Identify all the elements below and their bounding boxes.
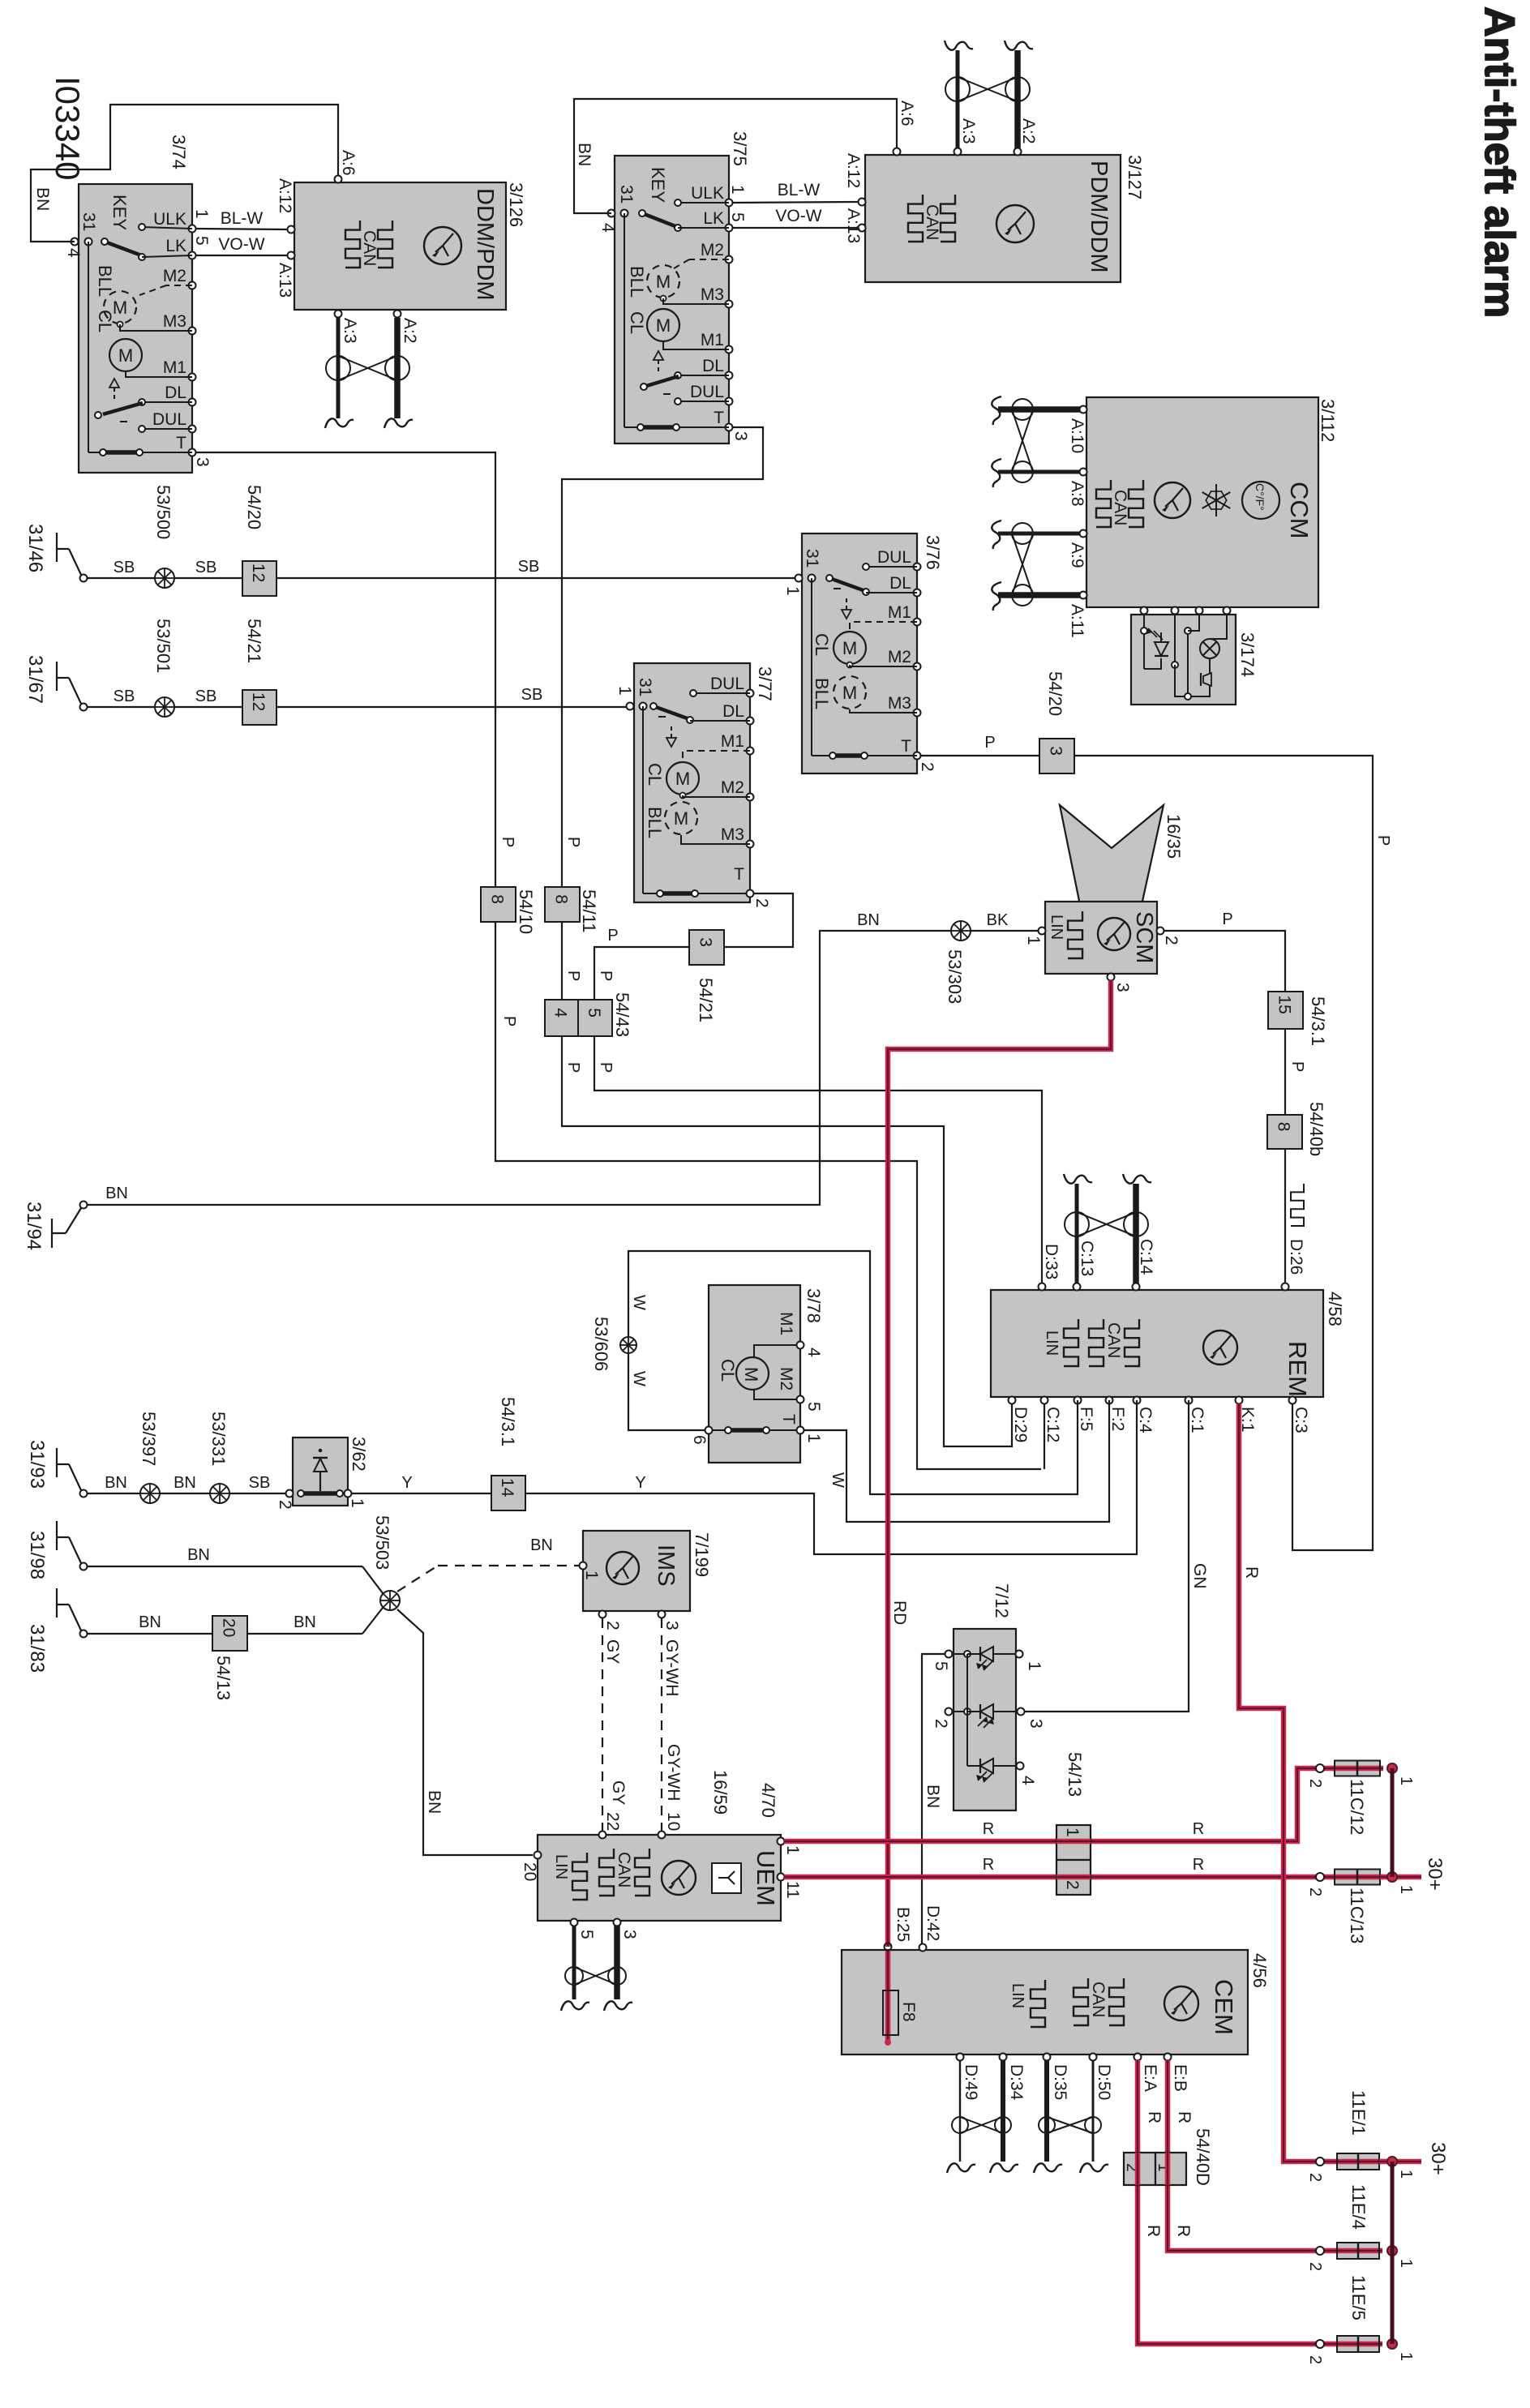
splice 53/501 [153,619,174,717]
title Anti-theft alarm [1476,6,1523,318]
diagram id I03340 [49,76,87,180]
svg-text:CAN: CAN [360,230,379,266]
svg-text:SB: SB [521,686,543,704]
svg-text:P: P [1222,910,1232,928]
alarm status unit 3/174 [1131,607,1258,705]
svg-text:R: R [1145,2111,1164,2123]
svg-text:M: M [656,272,671,292]
svg-text:2: 2 [276,1500,294,1510]
svg-text:BN: BN [105,1185,128,1202]
svg-text:SB: SB [518,558,540,576]
svg-text:R: R [1144,2225,1163,2237]
svg-text:A:12: A:12 [276,178,294,213]
svg-text:4: 4 [598,223,617,233]
fuse 11C/13 with 30+ feed [1306,1857,1446,1943]
svg-text:F:2: F:2 [1108,1407,1127,1431]
svg-text:W: W [829,1472,846,1488]
svg-text:1: 1 [1397,1885,1415,1894]
svg-text:DUL: DUL [152,410,186,429]
svg-text:M2: M2 [888,648,911,666]
immobilizer module IMS 7/199 [580,1531,713,1618]
svg-text:22: 22 [603,1812,622,1831]
svg-text:7/12: 7/12 [992,1583,1012,1618]
svg-text:P: P [597,970,615,981]
wire BN dashed 53/503 to IMS pin 1 [397,1536,580,1592]
svg-text:M: M [842,683,857,703]
svg-text:53/503: 53/503 [372,1515,392,1570]
svg-text:31/67: 31/67 [24,655,46,704]
svg-text:15: 15 [1275,995,1294,1013]
svg-text:30+: 30+ [1427,2142,1449,2175]
wire RD red SCM pin 3 to CEM B:25 [888,980,1111,1947]
connector 54/20 pin 12 [242,485,276,596]
svg-text:3: 3 [1026,1719,1045,1729]
wire BN 53/503 to UEM pin 20 [397,1609,533,1855]
svg-text:1: 1 [1063,1827,1082,1837]
svg-text:3: 3 [662,1621,681,1630]
svg-text:C:3: C:3 [1292,1407,1310,1433]
wire BN 31/98 to 53/503 [88,1546,383,1593]
svg-text:54/40b: 54/40b [1306,1102,1326,1156]
svg-text:D:50: D:50 [1095,2064,1113,2100]
svg-text:C:4: C:4 [1136,1407,1155,1433]
svg-text:DL: DL [702,357,724,375]
svg-text:10: 10 [664,1812,683,1831]
svg-text:A:3: A:3 [959,118,978,144]
svg-text:2: 2 [1306,2355,1324,2364]
svg-text:53/501: 53/501 [153,619,174,673]
fuse 11E/1 with 30+ feed [1306,2090,1449,2182]
wire P SCM pin 2 to REM D:26 via 54/3.1 pin 15 and 54/40b pin 8 [1164,910,1306,1287]
svg-text:BN: BN [139,1613,161,1631]
svg-text:M2: M2 [777,1367,795,1390]
svg-text:31/83: 31/83 [26,1624,48,1673]
wire VO-W 3/75 LK to A:13 [732,207,859,228]
svg-text:2: 2 [1162,936,1181,945]
svg-text:A:12: A:12 [844,153,863,188]
trunk lock unit 3/78 [690,1285,824,1463]
svg-text:D:26: D:26 [1287,1239,1305,1275]
svg-text:16/35: 16/35 [1164,814,1184,859]
svg-text:M1: M1 [721,732,744,751]
svg-text:54/40D: 54/40D [1193,2128,1213,2186]
wire BL-W 3/75 ULK to A:12 [732,181,859,203]
svg-text:M1: M1 [163,358,186,377]
svg-text:1: 1 [348,1498,366,1508]
wire SB 54/21 to 3/77 pin 1 [276,686,627,707]
svg-text:Y: Y [401,1474,412,1492]
svg-text:3/174: 3/174 [1237,632,1258,677]
svg-text:1: 1 [1397,2352,1415,2361]
svg-text:BK: BK [987,911,1009,929]
lock module 3/77 [615,663,775,908]
svg-text:T: T [779,1414,798,1425]
wire SB 54/20 to 3/76 pin 1 [276,558,795,578]
svg-text:R: R [1193,1856,1204,1874]
svg-text:2: 2 [932,1719,950,1729]
svg-text:53/303: 53/303 [945,949,965,1004]
svg-text:W: W [630,1295,648,1310]
svg-text:R: R [1242,1566,1261,1579]
svg-text:IMS: IMS [653,1545,679,1587]
svg-text:2: 2 [1306,1779,1324,1788]
svg-text:4: 4 [804,1348,823,1357]
wire SB 53/331 to 3/62 [229,1474,289,1493]
svg-text:ULK: ULK [691,184,724,203]
ground 31/93 [26,1440,88,1498]
svg-text:CAN: CAN [923,204,941,240]
svg-text:M3: M3 [163,312,186,331]
svg-text:W: W [630,1371,648,1386]
svg-text:CL: CL [627,311,647,334]
svg-text:LIN: LIN [1009,1983,1026,2008]
ground 31/83 [26,1588,88,1673]
ground 31/67 [24,655,88,711]
svg-text:P: P [597,1062,615,1073]
CAN twisted pair at PDM/DDM A:3 A:2 [945,41,1038,148]
svg-text:BLL: BLL [95,265,115,297]
wire SB 53/500 to 54/20 [174,559,242,578]
svg-text:DL: DL [722,702,744,721]
svg-text:3/112: 3/112 [1318,399,1338,442]
svg-text:54/20: 54/20 [244,485,264,529]
svg-text:M1: M1 [888,603,911,622]
svg-text:3: 3 [193,457,212,467]
wire BN 31/93 to 53/397 [88,1474,140,1493]
wire BN 3/75 to PDM/DDM A:6 [574,99,897,213]
wire R red CEM E:B to fuse 11E/4 via 54/40D pin 1 [1168,2060,1334,2251]
busbar 11C/12 to 11C/13 [1391,1768,1395,1877]
svg-text:GY-WH: GY-WH [662,1639,681,1696]
svg-text:M: M [674,808,688,829]
svg-text:2: 2 [1306,1887,1324,1896]
svg-text:M2: M2 [163,267,186,285]
CAN twisted pairs at CEM D:49 D:34 D:35 D:50 [947,2060,1108,2173]
svg-text:Y: Y [635,1474,645,1492]
svg-text:BN: BN [33,187,52,211]
ground 31/98 [26,1521,88,1579]
svg-text:5: 5 [728,212,747,222]
svg-text:SB: SB [249,1474,271,1492]
svg-text:R: R [1174,2225,1193,2237]
svg-text:KEY: KEY [648,167,668,203]
svg-text:16/59: 16/59 [710,1770,731,1815]
svg-text:P: P [499,837,516,847]
svg-text:BL-W: BL-W [778,181,821,199]
wire R red CEM E:A to fuse 11E/5 via 54/40D pin 2 [1138,2060,1334,2344]
svg-text:11E/1: 11E/1 [1348,2090,1369,2136]
door lock module 3/75 [598,131,750,443]
svg-text:11: 11 [783,1881,802,1899]
svg-text:3/78: 3/78 [804,1288,824,1323]
svg-text:BN: BN [575,143,594,166]
svg-text:CEM: CEM [1210,1979,1238,2035]
connector 54/43 pins 4 and 5 [545,992,632,1037]
lock module 3/76 [783,533,943,773]
svg-text:F8: F8 [899,2002,918,2022]
svg-text:54/3.1: 54/3.1 [498,1397,518,1446]
svg-text:5: 5 [577,1930,596,1939]
svg-text:A:9: A:9 [1068,542,1086,568]
svg-text:BN: BN [105,1474,127,1492]
svg-text:GY-WH: GY-WH [664,1744,683,1801]
svg-text:2: 2 [603,1621,622,1630]
svg-text:A:3: A:3 [341,318,359,344]
svg-text:P: P [1374,835,1392,846]
svg-text:31: 31 [803,549,821,568]
svg-text:31/94: 31/94 [23,1202,45,1250]
svg-text:LIN: LIN [1048,915,1065,940]
svg-text:A:10: A:10 [1068,418,1086,453]
svg-text:A:8: A:8 [1068,481,1086,507]
CAN twisted pair at DDM/PDM A:3 A:2 [325,318,419,428]
diode 3/62 [276,1437,369,1510]
svg-text:E:A: E:A [1141,2064,1159,2092]
wire VO-W 3/74 LK to A:13 [195,235,288,255]
svg-text:B:25: B:25 [894,1907,912,1942]
svg-text:P: P [564,970,582,981]
svg-text:2: 2 [752,898,771,908]
svg-text:D:42: D:42 [924,1905,942,1941]
splice 53/503 [372,1515,400,1610]
fuse 11C/12 [1306,1761,1415,1836]
svg-text:3/62: 3/62 [349,1437,369,1472]
svg-text:31: 31 [617,185,636,204]
red feed through CEM fuse F8 [883,1943,898,2046]
wire BN 7/12 pin 5 to CEM D:42 [922,1654,945,1944]
svg-text:CL: CL [812,633,832,656]
svg-text:BN: BN [174,1474,196,1492]
svg-text:6: 6 [690,1435,709,1445]
svg-text:D:49: D:49 [962,2064,980,2100]
svg-text:1: 1 [783,586,802,596]
svg-text:3: 3 [620,1930,639,1939]
svg-text:LIN: LIN [1043,1330,1061,1356]
svg-text:T: T [734,865,744,884]
svg-text:4/58: 4/58 [1325,1292,1345,1326]
svg-text:54/10: 54/10 [516,889,536,934]
svg-text:12: 12 [249,563,268,582]
svg-text:54/20: 54/20 [1045,671,1065,716]
svg-text:C°/F°: C°/F° [1254,483,1266,511]
wire BN 31/83 to 53/503 via 54/13 pin 20 [88,1608,383,1634]
connector 54/13 pin 20 [212,1616,247,1700]
svg-text:4: 4 [1018,1776,1037,1785]
fuse 11E/5 [1306,2275,1415,2364]
svg-text:2: 2 [918,762,936,772]
svg-text:2: 2 [1306,2173,1324,2182]
svg-text:BN: BN [425,1790,444,1814]
alarm indicator LEDs 7/12 [932,1583,1045,1810]
upper electronic module UEM 4/70 [521,1770,802,1939]
svg-text:SB: SB [195,688,217,705]
svg-text:CAN: CAN [615,1852,633,1887]
svg-text:2: 2 [1306,2262,1324,2271]
svg-text:1: 1 [582,1570,601,1580]
svg-text:RD: RD [890,1600,909,1625]
svg-text:14: 14 [498,1478,516,1498]
splice 53/303 [945,921,971,1004]
svg-text:53/331: 53/331 [208,1412,229,1466]
svg-text:1: 1 [804,1433,823,1443]
svg-text:53/606: 53/606 [591,1317,611,1371]
svg-text:3: 3 [1047,746,1065,756]
svg-text:54/3.1: 54/3.1 [1308,996,1328,1046]
svg-text:1: 1 [1025,1661,1044,1671]
wire SB from 31/46 [88,559,155,578]
svg-text:C:12: C:12 [1044,1407,1062,1442]
svg-text:M3: M3 [701,285,724,304]
svg-text:54/13: 54/13 [1065,1752,1085,1797]
svg-text:A:6: A:6 [339,150,358,176]
svg-text:4/70: 4/70 [758,1783,778,1818]
svg-text:D:34: D:34 [1007,2064,1026,2101]
svg-text:SB: SB [114,559,135,576]
rear electronic module REM 4/58 [991,1239,1345,1442]
svg-text:M: M [842,638,857,658]
svg-text:CCM: CCM [1285,482,1314,539]
svg-text:GY: GY [609,1780,628,1805]
connector 54/13 pins 1 and 2 [1056,1752,1091,1895]
wire P 3/74 T to REM C:12 via 54/10 [195,452,1044,1469]
connector 54/21 pin 12 [242,619,276,725]
fuse 11E/4 [1306,2184,1415,2271]
wire GN REM C:1 to 7/12 pin 3 [1024,1400,1209,1712]
svg-text:CL: CL [645,763,665,786]
svg-text:54/21: 54/21 [696,978,716,1022]
svg-text:3/76: 3/76 [923,535,943,570]
svg-text:BN: BN [857,911,880,929]
svg-text:M1: M1 [777,1312,795,1335]
svg-text:3: 3 [696,937,715,947]
svg-text:53/500: 53/500 [153,485,174,539]
svg-text:3/75: 3/75 [730,131,750,166]
svg-text:1: 1 [728,185,747,195]
svg-text:12: 12 [249,692,268,711]
svg-text:P: P [564,1062,582,1073]
busbar 11E/1 to 11E/5 [1391,2162,1395,2344]
svg-text:4: 4 [64,248,83,258]
svg-text:BLL: BLL [645,807,665,838]
svg-text:UEM: UEM [752,1850,780,1906]
svg-text:T: T [714,409,724,427]
svg-text:30+: 30+ [1424,1857,1446,1891]
wire BL-W 3/74 ULK to A:12 [195,209,288,229]
svg-text:4: 4 [551,1008,570,1018]
wire P 3/75 T to REM D:29 via 54/11 and 54/43 pin 4 [562,427,1012,1446]
svg-text:DUL: DUL [690,383,724,401]
svg-text:DUL: DUL [877,548,911,567]
svg-text:LK: LK [165,237,186,255]
svg-text:BN: BN [530,1536,553,1554]
svg-text:BL-W: BL-W [221,209,264,228]
svg-text:I03340: I03340 [49,76,87,180]
svg-text:BN: BN [187,1546,210,1564]
svg-text:P: P [607,927,618,945]
svg-text:P: P [564,837,582,847]
connector 54/21 pin 3 [689,930,724,1022]
svg-text:A:13: A:13 [844,208,863,243]
svg-text:CL: CL [718,1359,738,1382]
connector 54/20 pin 3 [1039,671,1074,773]
svg-text:54/21: 54/21 [244,619,264,663]
svg-text:P: P [500,1016,518,1026]
svg-text:3: 3 [731,431,750,441]
wire BN 3/74 to DDM/PDM A:6 [31,105,338,242]
wire BN 53/397 to 53/331 [160,1474,210,1493]
splice 53/606 [591,1317,636,1371]
svg-text:F:5: F:5 [1077,1407,1095,1431]
svg-text:M3: M3 [888,694,911,713]
wire P 3/77 T to REM D:33 via 54/21 pin 3 and 54/43 pin 5 [594,893,1042,1287]
svg-text:1: 1 [1397,2170,1415,2179]
svg-text:C:14: C:14 [1137,1239,1155,1275]
wire BN/BK 31/94 to SCM pin 1 via splice 53/303 [86,911,1039,1205]
svg-text:8: 8 [488,894,507,904]
svg-text:DDM/PDM: DDM/PDM [472,188,498,301]
svg-text:M: M [656,315,671,336]
wire W 3/78 T to REM F:2 [804,1400,1109,1522]
ground 31/46 [24,524,88,582]
svg-text:CL: CL [95,310,115,332]
driver door module DDM/PDM 3/126 [276,150,526,318]
svg-text:M2: M2 [721,778,744,797]
passenger door module PDM/DDM 3/127 [844,101,1145,282]
svg-text:1: 1 [783,1845,802,1855]
svg-text:A:2: A:2 [1019,118,1038,144]
wire Y 3/62 to REM C:4 via 54/3.1 pin 14 [351,1400,1137,1554]
svg-text:M1: M1 [701,331,724,349]
svg-text:P: P [984,734,995,752]
svg-text:R: R [983,1856,994,1874]
svg-text:1: 1 [1024,936,1043,945]
svg-text:54/11: 54/11 [579,889,599,932]
connector 54/40b pin 8 [1267,1102,1326,1156]
svg-text:DL: DL [165,383,186,402]
svg-text:11C/13: 11C/13 [1347,1887,1367,1943]
svg-text:T: T [176,434,186,452]
svg-text:DUL: DUL [710,675,744,693]
svg-text:SB: SB [114,688,135,705]
svg-text:31/46: 31/46 [24,524,46,572]
svg-text:BN: BN [294,1613,316,1631]
svg-text:8: 8 [1275,1122,1293,1132]
svg-text:53/397: 53/397 [139,1412,159,1466]
svg-text:1: 1 [192,209,211,219]
svg-text:3/77: 3/77 [755,666,775,701]
svg-text:SB: SB [195,559,217,576]
svg-text:A:6: A:6 [898,101,916,126]
connector 54/11 pin 8 [545,887,599,932]
svg-text:5: 5 [192,236,211,246]
svg-text:C:13: C:13 [1078,1240,1096,1276]
svg-text:31/98: 31/98 [26,1531,48,1579]
wire R red UEM pin 1 to fuse 11C/12 via 54/13 pin 1 [784,1768,1334,1841]
wire R red REM K:1 to fuse 11E/1 [1239,1403,1334,2162]
connector 54/3.1 pin 14 [491,1397,525,1510]
wire SB 53/501 to 54/21 [174,688,242,707]
svg-text:CAN: CAN [1104,1322,1123,1358]
svg-text:D:29: D:29 [1011,1407,1030,1442]
svg-text:3/74: 3/74 [169,135,189,169]
svg-text:54/43: 54/43 [612,992,632,1037]
wire P 3/76 T to REM C:3 via 54/20 pin 3 [920,734,1392,1550]
svg-text:31: 31 [79,212,98,231]
svg-text:CAN: CAN [1089,1982,1108,2017]
svg-text:M3: M3 [721,825,744,844]
svg-text:D:33: D:33 [1042,1244,1061,1279]
svg-text:1: 1 [1397,2259,1415,2268]
